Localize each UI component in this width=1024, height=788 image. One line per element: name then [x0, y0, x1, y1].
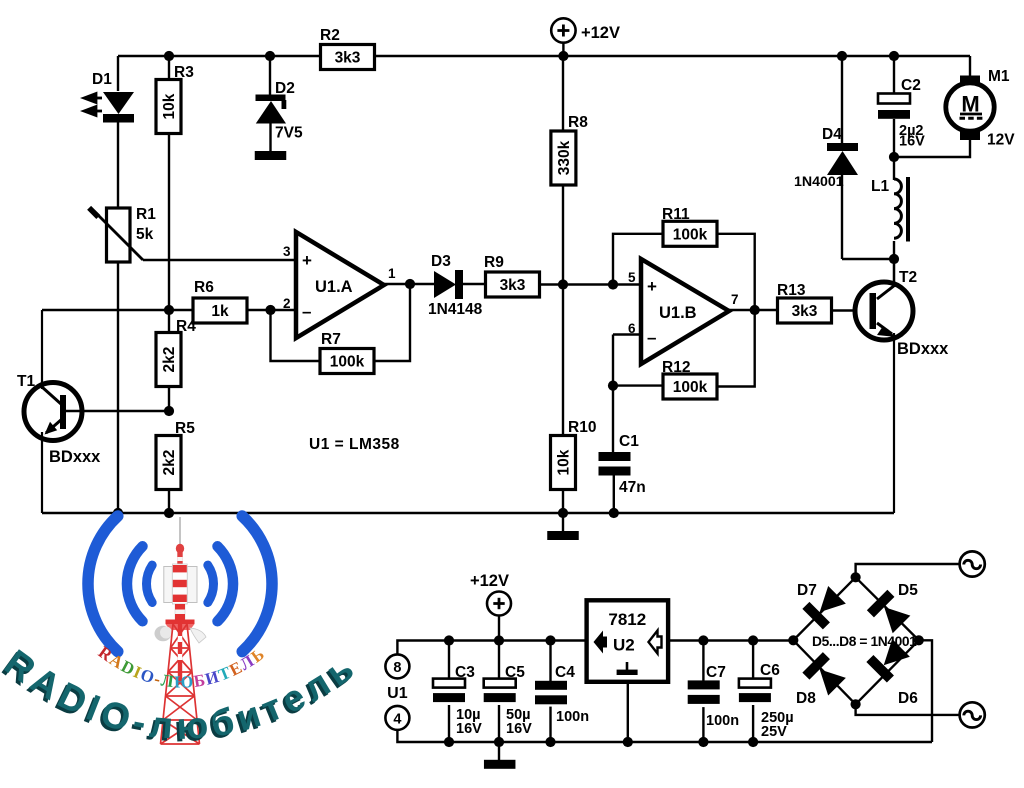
svg-text:R12: R12 — [662, 359, 690, 376]
wire R3 down to node — [168, 133, 170, 311]
svg-text:C5: C5 — [505, 664, 525, 681]
svg-text:3k3: 3k3 — [500, 277, 526, 294]
node bridge left — [788, 635, 798, 645]
svg-text:T1: T1 — [17, 373, 35, 390]
svg-text:D7: D7 — [797, 582, 817, 599]
diode D6 — [866, 638, 911, 683]
diode D3 — [434, 271, 456, 298]
svg-text:R4: R4 — [176, 318, 196, 335]
wire supply bottom rail left — [397, 730, 932, 742]
resistor R13 — [778, 298, 832, 323]
svg-text:R6: R6 — [194, 279, 214, 296]
svg-text:100k: 100k — [330, 354, 365, 371]
resistor R10 — [551, 436, 576, 490]
ground symbol main — [562, 513, 564, 531]
resistor R6 — [193, 298, 247, 323]
svg-text:D4: D4 — [822, 126, 842, 143]
resistor R3 — [168, 56, 170, 80]
svg-text:C7: C7 — [706, 664, 726, 681]
svg-text:C4: C4 — [555, 664, 575, 681]
wire R8 down — [562, 185, 564, 436]
logo radio waves right — [208, 516, 272, 652]
inductor L1 — [894, 179, 901, 238]
svg-text:M1: M1 — [988, 68, 1010, 85]
node L1 T2 D4 — [889, 254, 899, 264]
wire AC input bottom — [856, 704, 960, 715]
svg-text:L1: L1 — [871, 178, 889, 195]
svg-text:16V: 16V — [456, 721, 482, 737]
wire R7 to output — [374, 284, 410, 361]
wire D1 to R1 — [117, 122, 119, 208]
svg-text:12V: 12V — [987, 132, 1015, 149]
svg-text:1N4001: 1N4001 — [794, 174, 844, 190]
svg-text:47n: 47n — [619, 479, 646, 496]
resistor R4 — [168, 311, 170, 334]
node R5 rail — [164, 508, 174, 518]
svg-text:1: 1 — [388, 266, 396, 281]
svg-text:D5...D8 = 1N4001: D5...D8 = 1N4001 — [812, 634, 917, 649]
svg-text:1k: 1k — [211, 303, 229, 320]
svg-text:+12V: +12V — [581, 24, 620, 42]
capacitor C3 — [444, 635, 454, 645]
svg-text:2: 2 — [283, 296, 291, 311]
motor M1 — [960, 76, 980, 85]
svg-text:–: – — [302, 302, 311, 321]
wire U1.B pin5 — [563, 283, 641, 285]
wire +12V top rail — [118, 55, 970, 57]
svg-text:16V: 16V — [899, 134, 925, 150]
diode D7 — [802, 585, 847, 630]
wire supply mid rail — [668, 639, 793, 641]
diode D8 — [802, 652, 847, 697]
ground below C5 — [498, 742, 500, 760]
power terminal +12V top — [551, 18, 575, 42]
wire D3 to R9 — [463, 283, 486, 285]
svg-text:U1.B: U1.B — [659, 304, 697, 322]
svg-text:100k: 100k — [673, 226, 708, 243]
svg-text:–: – — [647, 328, 656, 347]
zener diode D2 — [269, 56, 271, 96]
svg-text:R7: R7 — [321, 331, 341, 348]
node pin5 — [558, 279, 568, 289]
svg-text:+12V: +12V — [470, 572, 509, 590]
wire inverting input U1.A — [42, 309, 296, 311]
svg-text:U2: U2 — [613, 636, 635, 655]
svg-text:10k: 10k — [161, 93, 178, 119]
wire R1 wiper to U1.A pin3 — [143, 259, 296, 261]
wire D1 branch top — [117, 56, 119, 91]
svg-text:25V: 25V — [761, 724, 787, 740]
resistor R9 — [486, 272, 540, 297]
op-amp U1.B — [641, 259, 729, 364]
svg-text:2k2: 2k2 — [161, 450, 178, 476]
svg-text:+: + — [302, 251, 312, 270]
node D1 rail — [113, 508, 123, 518]
svg-text:3k3: 3k3 — [335, 50, 361, 67]
svg-text:100n: 100n — [556, 709, 589, 725]
svg-text:D2: D2 — [275, 80, 295, 97]
resistor R8 — [562, 56, 564, 131]
svg-text:D3: D3 — [431, 253, 451, 270]
node R3-R4 junction — [164, 305, 174, 315]
svg-text:7V5: 7V5 — [275, 125, 303, 142]
wire AC input top — [856, 564, 960, 577]
svg-text:R10: R10 — [568, 419, 596, 436]
wire U1.B pin6 — [613, 333, 641, 335]
diode D4 — [841, 56, 843, 144]
node base T1 — [164, 406, 174, 416]
svg-text:5: 5 — [628, 270, 636, 285]
svg-text:R13: R13 — [777, 282, 806, 299]
svg-text:10k: 10k — [556, 449, 573, 475]
capacitor C6 — [748, 635, 758, 645]
wire R1 down — [117, 262, 119, 513]
wire R11 left branch — [613, 234, 663, 285]
svg-text:R1: R1 — [136, 206, 156, 223]
ground below D2 — [255, 151, 287, 160]
logo antenna tower — [155, 517, 207, 744]
svg-text:2k2: 2k2 — [161, 347, 178, 373]
AC source bottom — [960, 702, 985, 727]
node bridge bottom — [851, 699, 861, 709]
node R11 left — [608, 279, 618, 289]
wire pin6 down to C1 — [612, 335, 614, 453]
bridge rectifier wires — [793, 577, 919, 704]
svg-text:R2: R2 — [320, 27, 340, 44]
regulator U2 7812 — [587, 600, 669, 682]
capacitor C2 — [889, 51, 899, 61]
wire U1.A feedback — [271, 310, 321, 361]
wire R11 right branch — [717, 234, 755, 310]
svg-text:D1: D1 — [92, 71, 112, 88]
wire U2 ground pin — [627, 682, 629, 742]
AC source top — [960, 551, 985, 576]
svg-text:4: 4 — [393, 712, 401, 728]
svg-text:D8: D8 — [796, 690, 816, 707]
node +12V rail — [558, 51, 568, 61]
svg-text:D5: D5 — [898, 582, 918, 599]
svg-text:C1: C1 — [619, 433, 639, 450]
node R3 rail — [164, 51, 174, 61]
wire supply top rail — [397, 641, 586, 655]
wire C1 down — [613, 475, 615, 513]
potentiometer R1 — [107, 208, 131, 262]
svg-text:C6: C6 — [760, 662, 780, 679]
svg-text:BDxxx: BDxxx — [897, 340, 949, 358]
LED D1 — [103, 92, 134, 114]
resistor R2 — [321, 45, 375, 70]
transistor T1 — [24, 383, 82, 441]
capacitor C1 — [599, 452, 631, 461]
wire R9 to node — [539, 283, 566, 285]
svg-text:U1 = LM358: U1 = LM358 — [309, 436, 400, 453]
node R12 left — [608, 381, 618, 391]
svg-text:T2: T2 — [899, 269, 917, 286]
svg-text:R11: R11 — [662, 206, 690, 223]
pin circle 4 — [385, 706, 409, 730]
resistor R7 — [320, 349, 374, 374]
resistor R11 — [663, 221, 717, 246]
wire bridge negative — [919, 640, 932, 742]
svg-text:330k: 330k — [556, 140, 573, 175]
wire D4 to T2 collector node — [842, 258, 894, 260]
svg-text:7812: 7812 — [608, 610, 646, 629]
svg-text:7: 7 — [731, 292, 739, 307]
wire U1.B output — [729, 309, 778, 311]
svg-text:C3: C3 — [455, 664, 475, 681]
svg-text:16V: 16V — [506, 721, 532, 737]
svg-text:D6: D6 — [898, 690, 918, 707]
svg-text:8: 8 — [393, 660, 401, 676]
svg-text:C2: C2 — [901, 77, 921, 94]
wire motor bottom — [894, 138, 970, 157]
wire U1.A output — [384, 283, 434, 285]
op-amp U1.A — [296, 232, 384, 338]
node output U1.A — [405, 279, 415, 289]
node R10 rail — [558, 508, 568, 518]
diode D5 — [867, 590, 912, 635]
capacitor C7 — [698, 635, 708, 645]
node bridge right — [914, 635, 924, 645]
pin circle 8 — [385, 654, 409, 678]
node output U1.B — [750, 305, 760, 315]
svg-text:100n: 100n — [706, 713, 739, 729]
svg-text:5k: 5k — [136, 226, 154, 243]
node feedback junction — [265, 305, 275, 315]
node C2 motor junction — [889, 152, 899, 162]
svg-text:U1.A: U1.A — [315, 278, 353, 296]
svg-text:R9: R9 — [484, 254, 504, 271]
resistor R5 — [156, 436, 181, 490]
wire R13 to T2 base — [831, 309, 870, 311]
logo radio waves left — [88, 516, 152, 652]
wire R12 right branch — [717, 310, 755, 387]
resistor R12 — [613, 384, 663, 386]
svg-text:R5: R5 — [175, 420, 195, 437]
svg-text:100k: 100k — [673, 379, 708, 396]
svg-text:U1: U1 — [387, 685, 408, 702]
svg-text:+: + — [647, 277, 657, 296]
svg-text:3: 3 — [283, 244, 291, 259]
capacitor C4 — [545, 635, 555, 645]
svg-text:BDxxx: BDxxx — [49, 448, 101, 466]
svg-text:R3: R3 — [174, 64, 194, 81]
svg-text:3k3: 3k3 — [792, 303, 818, 320]
node bridge top — [851, 572, 861, 582]
transistor T2 — [855, 282, 913, 340]
node D2 rail — [265, 51, 275, 61]
ground bottom rail — [42, 512, 894, 514]
node C1 rail — [609, 508, 619, 518]
capacitor C5 — [494, 635, 504, 645]
svg-text:R8: R8 — [568, 114, 588, 131]
svg-text:1N4148: 1N4148 — [428, 301, 483, 318]
